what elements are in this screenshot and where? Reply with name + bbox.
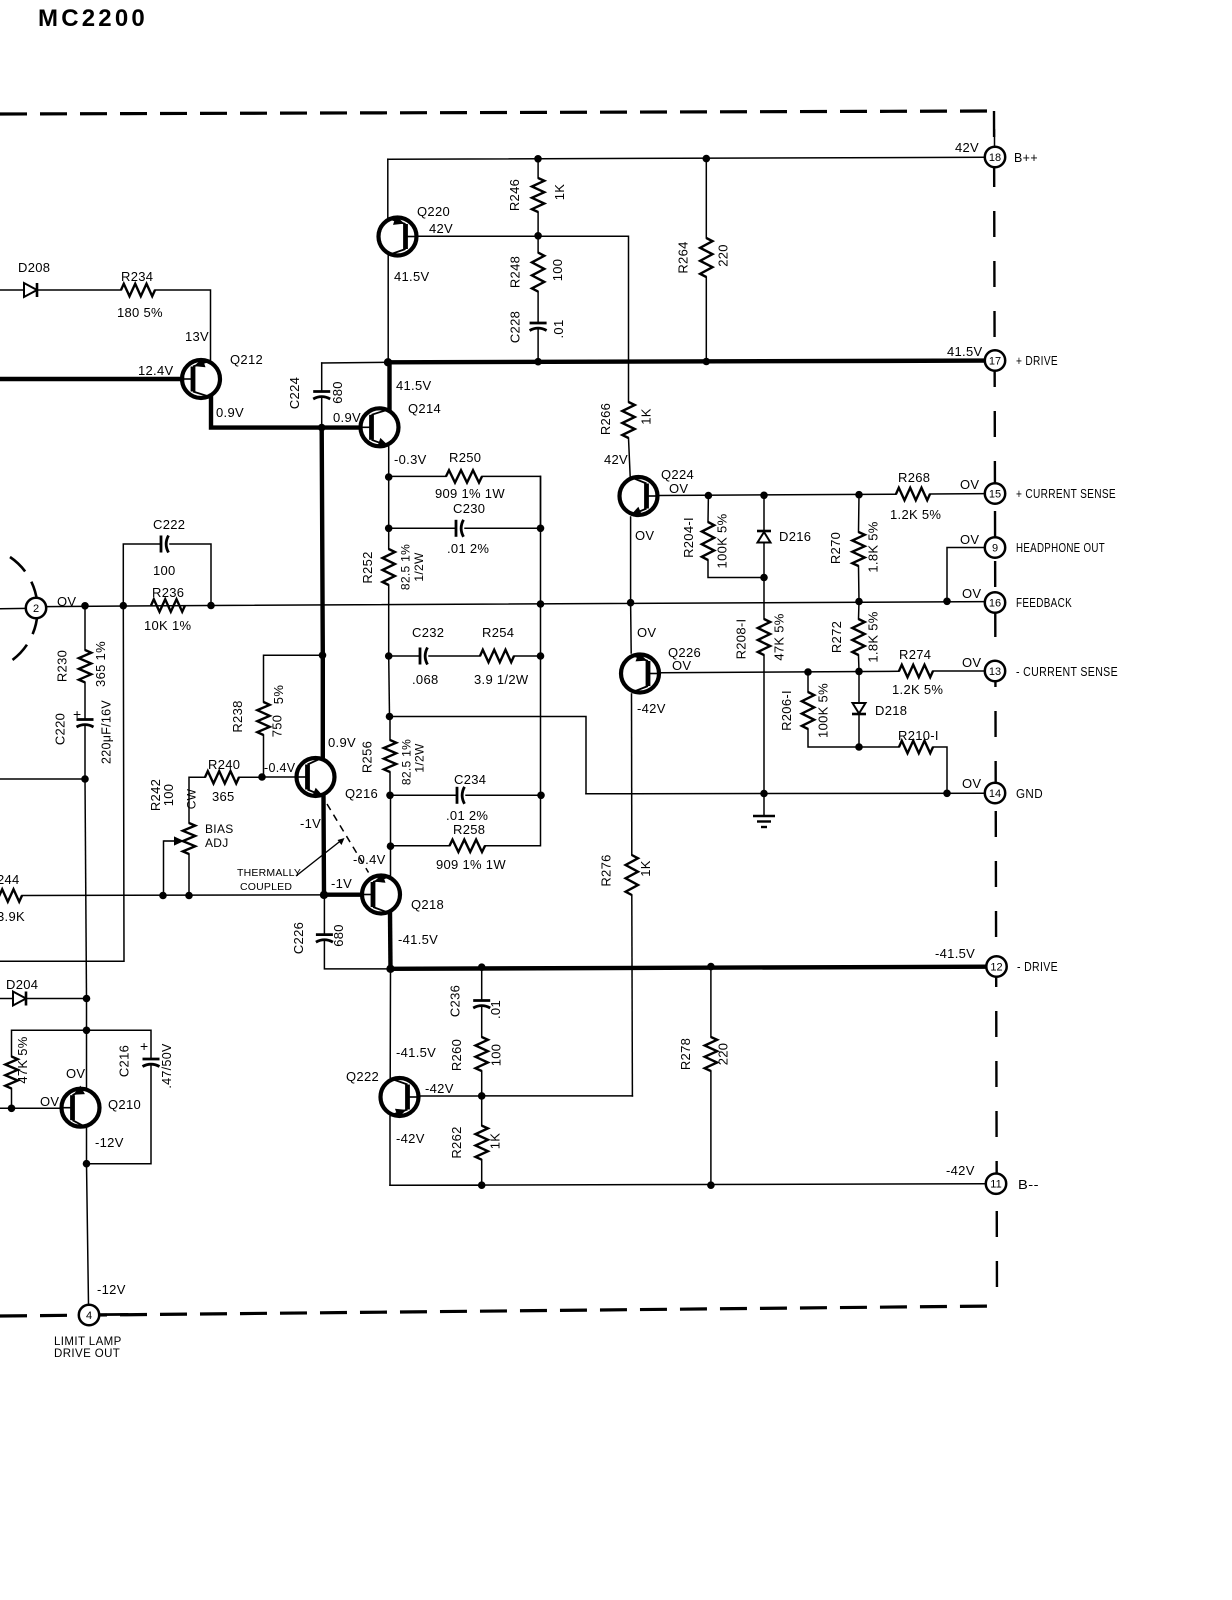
junction Q226 line / D218: [855, 668, 863, 676]
svg-text:D218: D218: [875, 703, 907, 718]
label Q224: [661, 467, 694, 482]
label D208: [18, 260, 50, 275]
junction +drive / R264: [703, 358, 711, 366]
transistor Q214: [360, 408, 399, 447]
svg-text:B--: B--: [1018, 1178, 1039, 1192]
wire R248 top: [537, 236, 539, 253]
junction Q224 line / R270: [855, 491, 863, 499]
svg-text:C234: C234: [454, 772, 486, 787]
svg-text:OV: OV: [40, 1094, 59, 1109]
thermal coupling dashed line: [327, 804, 369, 873]
label D218: [875, 703, 907, 718]
label R248: [508, 256, 523, 288]
label -41.5V Q222: [396, 1045, 436, 1060]
wire D218 upper: [858, 671, 860, 703]
capacitor C236: [473, 1001, 490, 1009]
label C232: [412, 625, 444, 640]
svg-text:-0.4V: -0.4V: [264, 761, 296, 775]
svg-text:OV: OV: [962, 655, 981, 670]
svg-text:1.8K 5%: 1.8K 5%: [866, 521, 881, 572]
value 100 R260: [489, 1044, 504, 1067]
wire -drive line: [391, 967, 986, 969]
svg-text:100: 100: [489, 1044, 504, 1067]
svg-text:C226: C226: [291, 922, 306, 954]
value 100 C222: [153, 563, 176, 578]
svg-text:13: 13: [989, 666, 1001, 678]
svg-text:100: 100: [161, 784, 176, 807]
label R262: [449, 1126, 464, 1158]
label Q212: [230, 352, 263, 367]
label R256: [360, 741, 375, 773]
svg-text:100: 100: [153, 563, 176, 578]
svg-text:ADJ: ADJ: [205, 836, 229, 850]
label R252: [360, 551, 375, 583]
junction feedback / headphone: [943, 598, 951, 606]
wire Q210 base line: [0, 1107, 60, 1109]
label 41.5V Q220: [394, 269, 430, 284]
terminal 16 FEEDBACK: [985, 592, 1005, 612]
wire down to terminal 4: [87, 1164, 89, 1305]
svg-text:R230: R230: [55, 650, 70, 682]
capacitor C234: [457, 787, 465, 804]
junction base line / R246-R248: [534, 232, 542, 240]
svg-text:.01: .01: [551, 320, 566, 339]
value 1/2W R256: [413, 743, 427, 773]
wire Q220 emitter to B++ rail: [387, 159, 389, 218]
label Q226: [668, 645, 701, 660]
label C220: [53, 713, 68, 745]
svg-text:.01 2%: .01 2%: [447, 541, 489, 556]
resistor R248: [532, 253, 544, 292]
wire left line y961: [0, 960, 87, 962]
svg-text:GND: GND: [1016, 787, 1043, 801]
wire C232 junction down: [388, 656, 391, 717]
label R278: [678, 1038, 693, 1070]
label B--: [1018, 1178, 1039, 1192]
label BIAS: [205, 822, 234, 836]
label 41.5V terminal17: [947, 344, 983, 359]
label C234: [454, 772, 486, 787]
svg-text:0.9V: 0.9V: [333, 410, 361, 425]
wire R258 junction: [390, 795, 392, 846]
wire Q216 base lead: [262, 776, 296, 778]
junction B-- / R262: [478, 1181, 486, 1189]
value .47/50V C216: [160, 1043, 174, 1089]
wire C216 bottom leg: [87, 1066, 152, 1164]
value 3.9K R244: [0, 909, 25, 924]
label Q216: [345, 786, 378, 801]
wire Q214 emitter to C230: [388, 477, 390, 528]
svg-text:15: 15: [989, 489, 1001, 501]
wire R278 top: [710, 967, 712, 1037]
wire C232 to R254: [429, 655, 480, 657]
wire C234 left lead: [390, 794, 457, 796]
value .01 2% C230: [447, 541, 489, 556]
svg-text:R252: R252: [360, 551, 375, 583]
label R230: [55, 650, 70, 682]
junction GND / R210-1: [943, 790, 951, 798]
terminal 2: [26, 598, 46, 618]
svg-text:365: 365: [212, 789, 235, 804]
wire to R208-1: [763, 578, 765, 620]
svg-text:R206-I: R206-I: [779, 690, 794, 731]
svg-text:-0.4V: -0.4V: [353, 852, 386, 867]
label R270: [828, 532, 843, 564]
svg-text:1.2K 5%: 1.2K 5%: [890, 507, 941, 522]
svg-text:OV: OV: [637, 625, 656, 640]
wire R258 left lead: [391, 845, 450, 847]
svg-text:82.5 1%: 82.5 1%: [400, 739, 414, 785]
svg-text:D216: D216: [779, 529, 811, 544]
svg-text:244: 244: [0, 872, 20, 887]
capacitor C228: [530, 323, 547, 331]
junction bias / pot wiper: [159, 892, 167, 900]
junction feedback / Q224-Q226: [627, 599, 635, 607]
svg-text:4: 4: [86, 1310, 92, 1322]
label R276: [599, 854, 614, 886]
label R238: [230, 700, 245, 732]
diode D204: [13, 992, 26, 1006]
svg-text:-41.5V: -41.5V: [935, 946, 975, 961]
value 220 R264: [716, 244, 731, 267]
label C226: [291, 922, 306, 954]
value 100K 5% R204-1: [715, 513, 730, 568]
label 12.4V: [138, 363, 174, 378]
svg-text:Q220: Q220: [417, 204, 450, 219]
label B++: [1014, 151, 1038, 165]
value 680 C224: [330, 381, 345, 404]
wire C224 lower lead: [321, 399, 323, 428]
wire C220 node down to D204 node: [85, 779, 87, 999]
value 100K 5% R206-1: [816, 683, 831, 738]
label -1V Q216: [300, 816, 321, 831]
wire input to Q212 base: [0, 377, 182, 381]
wire D204 node down: [86, 999, 88, 1031]
label + C220: [73, 706, 81, 722]
resistor R276: [626, 855, 638, 895]
label -0.4V Q216: [264, 761, 296, 775]
label OV Q224 base: [669, 481, 688, 496]
resistor R234: [121, 284, 155, 296]
svg-text:- CURRENT SENSE: - CURRENT SENSE: [1016, 665, 1118, 679]
resistor R244 partial: [0, 889, 22, 901]
capacitor C216: [143, 1059, 160, 1067]
wire C230 left lead: [389, 527, 456, 529]
svg-text:3.9K: 3.9K: [0, 909, 25, 924]
svg-text:2: 2: [33, 603, 39, 615]
svg-text:R262: R262: [449, 1126, 464, 1158]
wire C236 top: [481, 967, 483, 1000]
junction 47K / C216 node: [83, 1027, 91, 1035]
wire stub terminal 18 top: [994, 130, 996, 147]
label OV Q210 collector: [66, 1066, 85, 1081]
label -12V Q210: [95, 1135, 124, 1150]
junction 47K / Q210 base: [8, 1105, 16, 1113]
label -41.5V terminal12: [935, 946, 975, 961]
terminal 12 -DRIVE: [986, 956, 1006, 976]
label C222: [153, 517, 185, 532]
pot R242 wiper arrow: [164, 836, 184, 845]
svg-text:R204-I: R204-I: [681, 517, 696, 558]
junction +drive / C228: [534, 358, 542, 366]
svg-text:C224: C224: [287, 377, 302, 409]
terminal 11 B--: [986, 1174, 1006, 1194]
svg-text:47K 5%: 47K 5%: [15, 1036, 30, 1083]
wire left input at 779: [0, 778, 85, 780]
svg-text:220: 220: [716, 1043, 731, 1066]
label 42V Q224: [604, 452, 628, 467]
value 365 R240: [212, 789, 235, 804]
junction R240 / R238 / Q216 base: [258, 773, 266, 781]
svg-text:R260: R260: [449, 1039, 464, 1071]
wire R230 to C220: [84, 682, 86, 719]
junction D216 / R204-1: [760, 574, 768, 582]
junction -drive / C236: [478, 963, 486, 971]
wire R276 bottom to Q222 base node: [631, 895, 634, 1096]
wire R254 right: [514, 655, 541, 657]
resistor R238: [257, 702, 269, 735]
junction -drive node: [386, 965, 394, 973]
value 1K R262: [488, 1133, 503, 1150]
svg-text:R234: R234: [121, 269, 153, 284]
wire C216 top leg: [87, 1030, 152, 1058]
dashed enclosure border right: [994, 111, 997, 1306]
label OV terminal9: [960, 532, 979, 547]
value 1/2W R252: [412, 552, 426, 582]
svg-text:12.4V: 12.4V: [138, 363, 174, 378]
wire C228 bottom: [537, 330, 539, 362]
label R236: [152, 585, 184, 600]
svg-text:R276: R276: [599, 854, 614, 886]
svg-text:Q214: Q214: [408, 401, 441, 416]
capacitor C232: [420, 648, 428, 665]
label D204: [6, 977, 38, 992]
svg-text:14: 14: [989, 788, 1001, 800]
svg-text:.47/50V: .47/50V: [160, 1043, 174, 1089]
label R266: [598, 403, 613, 435]
wire Q216 collector lower: [321, 655, 325, 757]
title MC2200: [38, 5, 148, 32]
wire Q214 collector to +drive: [387, 362, 391, 408]
label +DRIVE: [1016, 354, 1058, 368]
wire R270 top: [858, 495, 861, 532]
label Q220: [417, 204, 450, 219]
svg-text:D208: D208: [18, 260, 50, 275]
wire R246 top: [537, 159, 539, 178]
resistor R268: [896, 488, 930, 500]
label -0.3V: [394, 452, 427, 467]
label OV terminal13: [962, 655, 981, 670]
wire R240 to base junction: [239, 776, 262, 778]
wire R264 bottom: [705, 277, 707, 362]
wire Q216 emitter down: [321, 797, 326, 895]
svg-text:100K 5%: 100K 5%: [715, 513, 730, 568]
svg-text:OV: OV: [635, 528, 654, 543]
svg-text:C220: C220: [53, 713, 68, 745]
wire R256 bottom: [389, 772, 391, 795]
value 1K R266: [639, 408, 654, 425]
capacitor C224: [313, 392, 330, 400]
wire R250 left: [389, 475, 446, 477]
value 82.5 1% R256: [400, 739, 414, 785]
svg-text:-12V: -12V: [97, 1282, 126, 1297]
svg-text:100K 5%: 100K 5%: [816, 683, 831, 738]
svg-text:THERMALLY: THERMALLY: [237, 867, 301, 879]
wire cross link to gnd line: [390, 717, 587, 794]
wire R262 bottom: [481, 1160, 483, 1186]
svg-text:R208-I: R208-I: [734, 619, 749, 660]
svg-text:R210-I: R210-I: [898, 728, 939, 743]
label ADJ: [205, 836, 229, 850]
value 1.2K 5% R268: [890, 507, 941, 522]
wire feedback line: [47, 602, 986, 607]
label -12V terminal4: [97, 1282, 126, 1297]
label CW: [185, 788, 199, 809]
svg-text:41.5V: 41.5V: [947, 344, 983, 359]
svg-text:12: 12: [990, 962, 1002, 974]
value 5% R238: [271, 685, 286, 705]
terminal 15 +CURRENT SENSE: [985, 483, 1005, 503]
svg-text:42V: 42V: [604, 452, 628, 467]
label R254: [482, 625, 514, 640]
dashed enclosure border bottom: [0, 1306, 997, 1316]
value 1.8K 5% R272: [866, 611, 881, 662]
resistor R266: [622, 402, 634, 438]
junction C220 / input: [81, 775, 89, 783]
label R260: [449, 1039, 464, 1071]
junction feedback / R230: [81, 602, 89, 610]
wire R246 bottom: [537, 212, 539, 236]
svg-text:R256: R256: [360, 741, 375, 773]
label R206-1: [779, 690, 794, 731]
svg-text:R264: R264: [676, 241, 691, 273]
label Q218: [411, 897, 444, 912]
svg-text:9: 9: [992, 543, 998, 555]
wire R210-1 to GND line: [933, 747, 947, 793]
capacitor C230: [456, 520, 464, 537]
label 42V terminal18: [955, 140, 979, 155]
wire R262 top: [481, 1096, 483, 1126]
junction D218 / R210-1: [855, 743, 863, 751]
value .068 C232: [412, 672, 439, 687]
wire R260 bottom: [481, 1071, 483, 1096]
svg-text:C216: C216: [117, 1045, 132, 1077]
transistor Q226: [621, 652, 660, 692]
svg-text:0.9V: 0.9V: [328, 735, 356, 750]
wire D218 lower: [858, 714, 860, 747]
wire R204-1 bottom: [708, 560, 764, 578]
svg-text:R254: R254: [482, 625, 514, 640]
junction R238 / Q216 collector line: [319, 652, 327, 660]
resistor R208-1: [758, 619, 770, 655]
wire Q222 emitter down: [390, 1116, 482, 1185]
wire D208 to R234: [37, 289, 121, 291]
junction Q216 emitter / Q218 base / bias / C226: [320, 891, 328, 899]
wire R270 bottom: [858, 566, 861, 602]
dashed enclosure border top: [0, 111, 993, 114]
resistor 47K: [5, 1057, 17, 1089]
resistor R210-1: [899, 741, 933, 753]
junction R254 right: [537, 652, 545, 660]
terminal 9 HEADPHONE OUT: [985, 537, 1005, 557]
junction Q222 base / R260 / R262: [478, 1092, 486, 1100]
svg-text:1K: 1K: [488, 1133, 503, 1150]
svg-text:180 5%: 180 5%: [117, 305, 163, 320]
wire R206-1 bottom: [808, 729, 859, 747]
svg-text:OV: OV: [960, 477, 979, 492]
svg-text:-1V: -1V: [331, 876, 352, 891]
svg-text:R246: R246: [507, 179, 522, 211]
value 100 R242: [161, 784, 176, 807]
wire Q224 emitter down: [630, 517, 632, 603]
svg-text:+ CURRENT SENSE: + CURRENT SENSE: [1016, 487, 1116, 501]
junction Q224 line / R204-1: [705, 492, 713, 500]
wire D204 to node: [26, 998, 87, 1000]
terminal 14 GND: [985, 783, 1005, 803]
svg-text:Q212: Q212: [230, 352, 263, 367]
wire pot wiper down: [163, 841, 165, 896]
potentiometer R242 BIAS ADJ: [183, 823, 195, 854]
junction D204 node: [83, 995, 91, 1003]
svg-text:LIMIT LAMP: LIMIT LAMP: [54, 1336, 122, 1348]
label + CURRENT SENSE: [1016, 487, 1116, 501]
wire Q226 collector down: [631, 694, 633, 855]
value 82.5 1% R252: [399, 544, 413, 590]
svg-text:1/2W: 1/2W: [412, 552, 426, 582]
resistor R262: [476, 1126, 488, 1160]
junction Q224 line / D216: [760, 492, 768, 500]
svg-text:Q222: Q222: [346, 1069, 379, 1084]
svg-text:MC2200: MC2200: [38, 5, 148, 32]
wire C222 right leg: [170, 544, 211, 606]
wire -drive to Q222 collector: [389, 969, 391, 1078]
label 42V Q220 base: [429, 221, 453, 236]
resistor R274: [899, 665, 933, 677]
label R208-1: [734, 619, 749, 660]
value 365 1% R230: [93, 641, 108, 687]
resistor R252: [383, 549, 395, 585]
svg-text:1K: 1K: [638, 860, 653, 877]
wire C222 left leg: [123, 544, 161, 606]
svg-text:-41.5V: -41.5V: [396, 1045, 436, 1060]
svg-text:365 1%: 365 1%: [93, 641, 108, 687]
junction feedback / C222: [120, 602, 128, 610]
label R246: [507, 179, 522, 211]
resistor R258: [450, 840, 486, 852]
transistor Q224: [620, 477, 659, 516]
label 41.5V Q214: [396, 378, 432, 393]
label C216: [117, 1045, 132, 1077]
svg-text:R270: R270: [828, 532, 843, 564]
svg-text:Q224: Q224: [661, 467, 694, 482]
svg-text:R272: R272: [829, 621, 844, 653]
svg-text:FEEDBACK: FEEDBACK: [1016, 596, 1072, 610]
svg-text:R250: R250: [449, 450, 481, 465]
capacitor C220: [77, 720, 94, 728]
junction +drive node: [384, 358, 392, 366]
wire R252 bottom: [388, 585, 390, 656]
svg-text:OV: OV: [962, 776, 981, 791]
label R234: [121, 269, 153, 284]
resistor R260: [476, 1037, 488, 1071]
label -42V terminal11: [946, 1163, 975, 1178]
label C228: [508, 311, 523, 343]
label -42V Q222 emitter: [396, 1131, 425, 1146]
svg-text:680: 680: [330, 381, 345, 404]
resistor R204-1: [702, 522, 714, 560]
svg-text:OV: OV: [57, 594, 76, 609]
svg-text:R278: R278: [678, 1038, 693, 1070]
